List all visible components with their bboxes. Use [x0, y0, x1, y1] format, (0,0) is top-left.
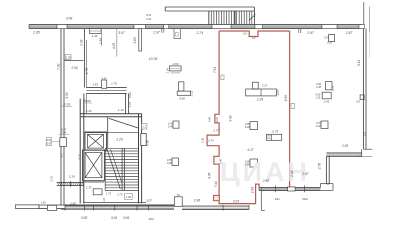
svg-text:0.6: 0.6: [356, 99, 360, 103]
svg-text:2.85: 2.85: [69, 201, 76, 205]
svg-text:0.9: 0.9: [243, 33, 247, 36]
pier top wall A: [57, 25, 67, 29]
stair flights hatch horizontal treads: [105, 148, 138, 190]
svg-text:1.78: 1.78: [111, 82, 117, 86]
svg-text:0.78: 0.78: [208, 138, 214, 142]
wall: bottom S3: [182, 205, 249, 211]
svg-text:1.54: 1.54: [165, 68, 169, 74]
svg-text:1.93: 1.93: [99, 38, 103, 44]
svg-text:2.74: 2.74: [195, 31, 203, 35]
svg-text:0.51: 0.51: [146, 13, 152, 17]
fixture A corridor: [173, 121, 179, 128]
stair up arrow top: [249, 14, 256, 20]
fixture bath middle-right 2.39: [246, 82, 277, 96]
fixture cluster right G: [322, 82, 332, 99]
svg-text:7.44: 7.44: [214, 181, 218, 187]
svg-text:3.17: 3.17: [262, 84, 268, 88]
outer line right above: [369, 7, 371, 32]
fixture E open area: [250, 159, 258, 167]
svg-text:0.48: 0.48: [316, 86, 321, 89]
pier top wall C: [164, 25, 169, 29]
stair upper flight hatch: [209, 11, 252, 25]
wall: bottom S2 band: [61, 206, 174, 210]
svg-text:3.63: 3.63: [133, 37, 137, 43]
svg-text:2.4: 2.4: [363, 132, 367, 137]
svg-text:9.11: 9.11: [357, 60, 361, 66]
window top 2.95: [29, 25, 57, 29]
svg-text:2.41: 2.41: [323, 99, 330, 103]
svg-text:0.97: 0.97: [46, 143, 51, 146]
svg-text:2.43: 2.43: [80, 39, 84, 46]
svg-text:1.75: 1.75: [106, 191, 112, 195]
corner stub lines bottom right: [357, 149, 372, 156]
svg-text:0.79: 0.79: [272, 130, 278, 134]
svg-text:1.07: 1.07: [128, 101, 132, 107]
light partition x101.5: [101, 29, 103, 46]
svg-text:4.25: 4.25: [112, 43, 116, 49]
svg-text:2.95: 2.95: [262, 179, 269, 183]
wall: bottom S1 porch zone: [39, 205, 65, 209]
svg-text:0.48: 0.48: [168, 125, 173, 128]
svg-text:2.87: 2.87: [301, 172, 308, 176]
window tick pair x299: [299, 29, 301, 33]
svg-text:2.97: 2.97: [152, 31, 160, 35]
landing line y132.7: [84, 132, 138, 134]
wall double x125.6-128.6: [126, 93, 129, 113]
machine room box: [93, 189, 102, 195]
stair diagonal arrows: [107, 149, 122, 189]
svg-text:7.81: 7.81: [56, 63, 60, 70]
wall: right exterior: [363, 29, 366, 150]
svg-text:3.15: 3.15: [49, 176, 53, 182]
window top 3.08: [67, 25, 134, 29]
bottom step to bay: [249, 189, 265, 211]
light partition x116.8: [116, 29, 118, 57]
svg-text:4.10: 4.10: [78, 154, 82, 160]
pier top wall F: [322, 25, 337, 29]
tag box on red line right: [291, 104, 295, 109]
svg-text:2.67: 2.67: [276, 89, 280, 96]
svg-text:0.48: 0.48: [245, 126, 250, 129]
svg-text:2.70: 2.70: [85, 185, 92, 189]
svg-text:3.08: 3.08: [66, 16, 73, 20]
door ticks below wall x162: [162, 29, 164, 33]
svg-text:3.06: 3.06: [111, 216, 117, 220]
svg-text:1.76: 1.76: [66, 56, 72, 60]
closet under top wall 1.44: [90, 29, 102, 34]
bay right corner box: [320, 184, 333, 191]
svg-text:0.48: 0.48: [245, 163, 250, 166]
pier top wall B: [134, 25, 146, 29]
elevator shaft 1: [85, 132, 107, 150]
svg-text:2.0: 2.0: [251, 37, 256, 40]
label box 1.76: [65, 55, 71, 60]
door box core right wall: [141, 133, 146, 145]
svg-text:10.39: 10.39: [149, 57, 158, 61]
svg-text:1.26: 1.26: [315, 96, 320, 99]
tag box on red line upper: [221, 75, 224, 80]
partition top-left room y60.5: [64, 60, 84, 62]
corridor face lines above bottom wall: [65, 202, 174, 204]
pier in bay window: [288, 187, 296, 191]
svg-text:4.57: 4.57: [59, 152, 63, 158]
partition below band x83.9-86.3: [84, 93, 86, 113]
fixture C open area: [250, 122, 258, 130]
shaft2 bottom wall: [83, 181, 105, 183]
duct under top wall right: [329, 35, 335, 42]
pilaster box x140: [139, 29, 142, 51]
svg-text:3.06: 3.06: [123, 216, 129, 220]
svg-text:1.44: 1.44: [92, 34, 98, 38]
svg-text:12H: 12H: [148, 217, 154, 221]
window lower-right 2.38: [326, 149, 361, 156]
hatched wall entry 7.19: [57, 181, 84, 187]
wall band y87.6-93.4: [86, 88, 126, 94]
window top 2.74: [169, 25, 212, 29]
svg-text:1.83: 1.83: [92, 82, 98, 86]
pier top wall E: [255, 25, 263, 29]
fixture wc middle T-shape: [177, 82, 190, 95]
svg-text:0.90: 0.90: [219, 158, 222, 163]
svg-text:1.26: 1.26: [201, 137, 205, 143]
svg-text:2.12: 2.12: [189, 90, 193, 97]
svg-text:0.48: 0.48: [316, 125, 321, 128]
shaft box under top wall x174: [174, 29, 181, 39]
window top: [231, 25, 255, 29]
entrance steps lines: [15, 205, 39, 209]
niche boxed label 0.92: [46, 138, 60, 146]
white box on wall 0.47: [102, 80, 107, 88]
svg-text:0.90: 0.90: [208, 116, 211, 121]
svg-text:2.38: 2.38: [341, 144, 348, 148]
svg-text:0.47: 0.47: [102, 76, 108, 80]
wall: core left x80.2-83.8: [80, 99, 84, 204]
svg-text:0.60: 0.60: [179, 97, 185, 101]
svg-text:0.51: 0.51: [324, 36, 329, 39]
svg-text:3.19: 3.19: [86, 109, 92, 113]
svg-text:7.91: 7.91: [213, 67, 217, 73]
wall step right bay: [326, 156, 329, 184]
fixture B corridor: [172, 158, 179, 166]
svg-text:2.63: 2.63: [128, 92, 132, 99]
svg-text:2.16: 2.16: [290, 170, 294, 177]
svg-text:2.79: 2.79: [85, 68, 89, 75]
partition vertical x84.4-86.4: [84, 29, 86, 88]
svg-text:0.75: 0.75: [332, 85, 335, 90]
wall: core right x138.5-141.6: [139, 114, 142, 204]
svg-text:0.91: 0.91: [216, 116, 219, 121]
svg-text:0.52: 0.52: [327, 41, 332, 44]
svg-text:5DH: 5DH: [302, 197, 308, 201]
porch box: [47, 205, 56, 210]
fixture right wall H: [360, 95, 364, 100]
tag box right of core wall: [142, 124, 147, 129]
svg-text:1.70: 1.70: [117, 192, 123, 196]
elevator shaft 2: [83, 150, 105, 181]
svg-text:1.06: 1.06: [126, 195, 132, 199]
red outline: highlighted unit boundary: [207, 31, 290, 204]
wall stub above right corner: [363, 2, 365, 25]
svg-text:0.48: 0.48: [167, 162, 172, 165]
svg-text:3.92: 3.92: [65, 92, 69, 98]
stair landing outline top: [165, 7, 254, 25]
svg-text:0.77: 0.77: [213, 128, 219, 132]
svg-text:1.10: 1.10: [118, 108, 124, 112]
diagonal wall top room: [109, 118, 138, 128]
svg-text:1.43: 1.43: [103, 198, 106, 203]
niche on left wall: [60, 138, 67, 147]
svg-text:9.99: 9.99: [284, 95, 288, 101]
window ticks bottom S2: [65, 204, 148, 210]
svg-text:3.03: 3.03: [233, 200, 239, 204]
svg-text:2.19: 2.19: [68, 174, 75, 178]
svg-text:2.01: 2.01: [145, 17, 152, 21]
door on bottom wall: [174, 197, 182, 207]
fixture sink top-middle 0.82: [170, 66, 182, 73]
svg-text:2.39: 2.39: [256, 98, 263, 102]
svg-text:-0.750: -0.750: [63, 103, 71, 107]
svg-text:3.07: 3.07: [146, 199, 152, 203]
svg-text:3.07: 3.07: [118, 31, 125, 35]
svg-text:0.000: 0.000: [84, 99, 91, 103]
svg-text:4.45: 4.45: [208, 172, 212, 178]
room divider x107.7: [107, 117, 109, 149]
svg-text:4.37: 4.37: [247, 148, 253, 152]
svg-text:9.42: 9.42: [229, 115, 233, 121]
window top 2.87: [337, 25, 359, 29]
svg-text:3.08: 3.08: [81, 216, 87, 220]
fixture I right area: [321, 121, 328, 129]
labels cluster left wall upper: [59, 129, 70, 135]
svg-text:3.78: 3.78: [318, 163, 322, 169]
wall: left exterior: [61, 29, 64, 206]
svg-text:1.45: 1.45: [41, 201, 46, 204]
wall: top exterior wall: [29, 25, 363, 29]
svg-text:2.87: 2.87: [345, 31, 353, 35]
svg-text:0.98: 0.98: [146, 140, 150, 146]
svg-text:2.96: 2.96: [193, 199, 200, 203]
svg-text:2.96: 2.96: [70, 66, 77, 70]
red pier bottom corner: [214, 195, 220, 200]
window bay bottom 2.95/2.87: [259, 185, 320, 192]
pier top wall D under stair: [212, 25, 231, 29]
fixture table F 0.79: [266, 134, 281, 140]
svg-text:2.97: 2.97: [306, 31, 314, 35]
wall: core top y113.7-116.7: [80, 114, 141, 117]
window top 2.97: [146, 25, 164, 29]
svg-text:13H: 13H: [274, 197, 279, 201]
pier top wall G corner: [359, 25, 365, 29]
svg-text:2.95: 2.95: [32, 31, 40, 35]
window top 2.97right: [263, 25, 323, 29]
svg-text:2.20: 2.20: [115, 137, 122, 141]
svg-text:0.82: 0.82: [173, 62, 179, 66]
svg-text:1.68: 1.68: [251, 187, 255, 193]
